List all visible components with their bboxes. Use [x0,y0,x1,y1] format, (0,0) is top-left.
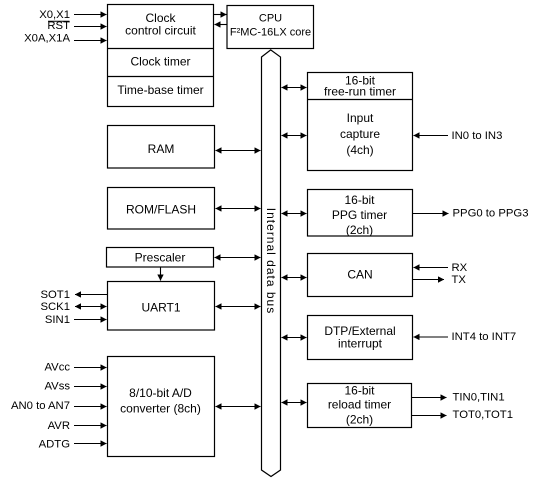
svg-text:PPG0 to PPG3: PPG0 to PPG3 [453,208,529,220]
svg-text:AVss: AVss [44,381,70,393]
svg-text:8/10-bit A/D: 8/10-bit A/D [129,386,192,400]
svg-text:(2ch): (2ch) [346,223,373,237]
svg-text:RX: RX [452,262,468,274]
svg-text:reload timer: reload timer [328,398,391,412]
svg-text:SOT1: SOT1 [40,289,70,301]
svg-text:Prescaler: Prescaler [135,250,186,264]
svg-text:AVcc: AVcc [44,361,70,373]
svg-text:SCK1: SCK1 [40,301,70,313]
svg-text:UART1: UART1 [141,300,180,314]
svg-text:SIN1: SIN1 [45,314,70,326]
svg-text:16-bit: 16-bit [344,384,375,398]
svg-text:Clock timer: Clock timer [130,55,190,69]
svg-text:(4ch): (4ch) [346,143,373,157]
svg-text:INT4 to INT7: INT4 to INT7 [452,331,517,343]
svg-text:ROM/FLASH: ROM/FLASH [126,203,196,217]
svg-text:converter (8ch): converter (8ch) [120,402,201,416]
svg-text:Input: Input [347,111,374,125]
svg-text:X0A,X1A: X0A,X1A [24,33,70,45]
svg-text:control circuit: control circuit [125,23,196,37]
svg-text:ADTG: ADTG [39,439,70,451]
svg-text:F²MC-16LX core: F²MC-16LX core [230,26,311,38]
svg-text:PPG timer: PPG timer [332,208,387,222]
svg-text:CPU: CPU [259,13,282,25]
svg-text:IN0 to IN3: IN0 to IN3 [452,130,503,142]
svg-text:AN0 to AN7: AN0 to AN7 [11,400,70,412]
svg-text:interrupt: interrupt [338,337,383,351]
svg-text:RAM: RAM [148,142,175,156]
svg-text:free-run timer: free-run timer [324,84,396,98]
svg-text:16-bit: 16-bit [344,193,375,207]
svg-text:AVR: AVR [48,420,70,432]
svg-text:Time-base timer: Time-base timer [117,83,203,97]
svg-text:(2ch): (2ch) [346,412,373,426]
svg-text:TIN0,TIN1: TIN0,TIN1 [453,392,505,404]
svg-text:Internal data bus: Internal data bus [264,208,278,314]
svg-text:capture: capture [340,127,380,141]
svg-text:CAN: CAN [347,268,372,282]
svg-text:TOT0,TOT1: TOT0,TOT1 [453,409,513,421]
svg-text:TX: TX [452,274,467,286]
